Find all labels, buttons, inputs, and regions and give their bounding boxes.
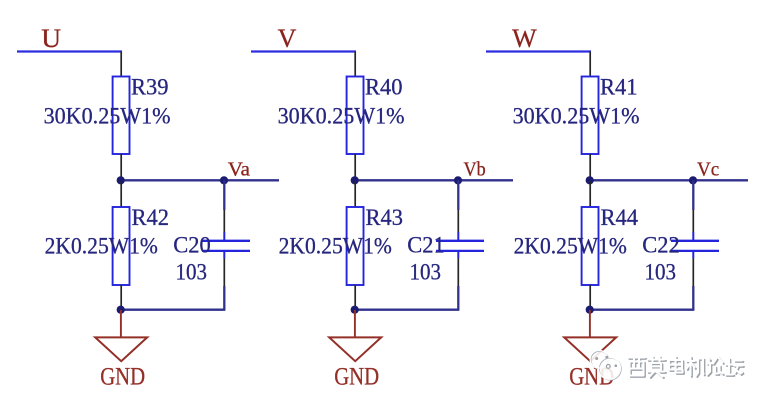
svg-text:R44: R44 <box>601 205 639 230</box>
svg-text:U: U <box>41 24 61 53</box>
svg-text:R41: R41 <box>600 75 638 100</box>
svg-text:2K0.25W1%: 2K0.25W1% <box>514 233 627 258</box>
svg-text:30K0.25W1%: 30K0.25W1% <box>278 104 405 129</box>
svg-text:C21: C21 <box>407 233 445 258</box>
svg-text:R40: R40 <box>365 75 403 100</box>
svg-text:R42: R42 <box>132 205 170 230</box>
svg-text:2K0.25W1%: 2K0.25W1% <box>279 233 392 258</box>
svg-text:2K0.25W1%: 2K0.25W1% <box>45 233 158 258</box>
svg-text:103: 103 <box>410 260 442 285</box>
svg-text:W: W <box>512 24 537 53</box>
svg-text:R39: R39 <box>131 75 169 100</box>
svg-text:GND: GND <box>100 364 145 391</box>
svg-text:R43: R43 <box>366 205 404 230</box>
svg-text:C20: C20 <box>173 233 211 258</box>
svg-text:30K0.25W1%: 30K0.25W1% <box>44 104 171 129</box>
svg-text:30K0.25W1%: 30K0.25W1% <box>513 104 640 129</box>
svg-text:C22: C22 <box>642 233 680 258</box>
svg-text:Vc: Vc <box>697 158 719 180</box>
svg-text:Va: Va <box>228 158 250 180</box>
svg-text:V: V <box>278 24 297 53</box>
svg-text:Vb: Vb <box>464 158 486 180</box>
svg-text:103: 103 <box>645 260 677 285</box>
svg-text:GND: GND <box>334 364 379 391</box>
svg-text:103: 103 <box>176 260 208 285</box>
